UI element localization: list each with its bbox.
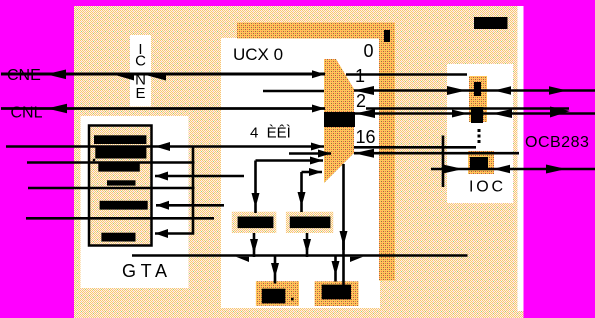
svg-text:1: 1 — [355, 66, 365, 86]
svg-text:C: C — [135, 53, 146, 70]
svg-text:CNL: CNL — [11, 105, 43, 122]
svg-text:OCB283: OCB283 — [525, 134, 589, 151]
svg-text:2: 2 — [356, 91, 366, 111]
svg-text:0: 0 — [364, 41, 374, 61]
svg-text:CNE: CNE — [7, 67, 41, 84]
svg-text:UCX 0: UCX 0 — [233, 45, 283, 64]
svg-text:4 ÈÊÌ: 4 ÈÊÌ — [250, 125, 291, 142]
svg-text:GTA: GTA — [122, 261, 167, 281]
svg-text:E: E — [135, 85, 145, 102]
svg-text:16: 16 — [356, 127, 376, 147]
